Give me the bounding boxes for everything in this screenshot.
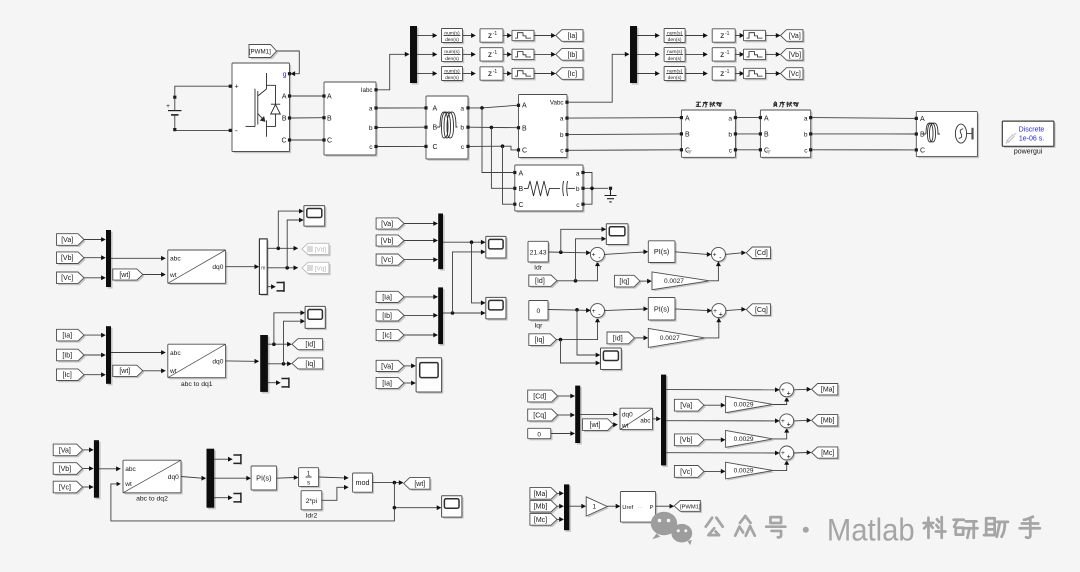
svg-text:den(s): den(s) <box>668 56 682 62</box>
wire <box>548 251 586 254</box>
unit delay z-1 (I row 3) <box>482 69 505 82</box>
svg-text:g: g <box>283 72 287 79</box>
svg-text:dq0: dq0 <box>622 412 633 419</box>
wire <box>84 334 102 336</box>
svg-text:a: a <box>576 170 580 177</box>
wire <box>443 241 482 243</box>
svg-text:[Ia]: [Ia] <box>382 294 392 301</box>
goto tag [Ia] <box>558 31 585 43</box>
gain 0.0029 <box>727 398 774 415</box>
wire <box>214 458 228 460</box>
wire <box>503 53 508 55</box>
svg-text:Matlab: Matlab <box>827 512 915 548</box>
wire <box>503 35 508 37</box>
wire <box>111 257 162 259</box>
goto tag [Cq] <box>748 306 772 318</box>
wire <box>463 35 472 37</box>
rate transition (I row 3) <box>514 70 536 80</box>
svg-text:den(s): den(s) <box>668 37 682 43</box>
wire <box>561 229 602 252</box>
wire <box>735 73 740 75</box>
svg-text:A: A <box>685 115 690 122</box>
from tag [Iq] (row2) <box>531 336 559 348</box>
wire <box>685 73 703 75</box>
wire <box>267 267 294 269</box>
wire <box>558 414 571 416</box>
svg-text:z: z <box>488 49 492 59</box>
sum ++ (mod) <box>781 384 795 398</box>
wire <box>534 53 552 55</box>
wire <box>557 266 598 281</box>
svg-text:PI(s): PI(s) <box>654 247 669 256</box>
svg-text:+: + <box>166 103 170 110</box>
mux (dq0 to abc) <box>577 387 582 444</box>
mod block <box>354 475 374 494</box>
wire <box>710 266 719 281</box>
svg-text:z: z <box>720 49 724 59</box>
svg-text:a: a <box>728 115 732 122</box>
svg-text:0.0029: 0.0029 <box>734 436 754 443</box>
svg-text:b: b <box>728 132 732 139</box>
wire <box>604 252 644 254</box>
terminator (dq0 #1) <box>277 282 285 292</box>
svg-text:Idr2: Idr2 <box>306 512 318 519</box>
svg-text:B: B <box>764 132 769 139</box>
svg-text:-1: -1 <box>493 69 498 75</box>
wire <box>291 139 323 141</box>
svg-text:b: b <box>460 125 464 132</box>
wire <box>84 239 102 241</box>
svg-text:[Mc]: [Mc] <box>821 450 834 457</box>
from tag [Va] (pll) <box>55 446 84 458</box>
wire Vabc to demux <box>569 54 626 102</box>
svg-text:wt: wt <box>621 423 629 430</box>
svg-text:[Iq]: [Iq] <box>305 361 315 368</box>
svg-text:[Iq]: [Iq] <box>535 337 545 344</box>
svg-text:+: + <box>787 420 791 429</box>
wire feedback wt <box>111 484 395 521</box>
svg-text:C: C <box>920 148 925 155</box>
svg-text:[Mb]: [Mb] <box>821 418 835 425</box>
goto tag [Ma] <box>813 385 839 396</box>
from tag [wt] (dq1) <box>115 367 145 378</box>
three-phase I measurement block <box>326 84 378 157</box>
svg-text:abc to dq2: abc to dq2 <box>136 496 168 503</box>
svg-text:1: 1 <box>592 504 596 511</box>
svg-text:C: C <box>519 202 524 209</box>
from tag [Mb] <box>532 502 559 514</box>
wire phase b <box>470 126 518 129</box>
svg-text:Iabc: Iabc <box>361 87 373 94</box>
svg-text:21.43: 21.43 <box>530 249 547 256</box>
terminator (dq1) <box>281 378 289 388</box>
wire <box>84 374 102 376</box>
svg-text:powergui: powergui <box>1014 149 1043 156</box>
svg-text:b: b <box>369 125 373 132</box>
wire <box>557 505 560 507</box>
wire <box>378 107 425 109</box>
svg-text:[Id]: [Id] <box>535 278 545 285</box>
wire <box>569 117 680 120</box>
svg-text:z: z <box>720 30 724 40</box>
svg-text:a: a <box>460 105 464 112</box>
svg-text:+: + <box>592 308 596 315</box>
svg-text:[Cq]: [Cq] <box>755 307 768 314</box>
wire <box>274 313 301 344</box>
from tag [Vb] (pll) <box>55 464 84 476</box>
DC voltage source V1 <box>173 96 176 99</box>
wire <box>656 505 670 507</box>
svg-text:[wt]: [wt] <box>414 481 425 488</box>
svg-text:dq0: dq0 <box>212 359 223 366</box>
svg-text:den(s): den(s) <box>445 75 459 81</box>
svg-text:den(s): den(s) <box>668 75 682 81</box>
gain 1 (PWM) <box>588 499 609 518</box>
svg-text:[Ma]: [Ma] <box>821 387 835 394</box>
gain 0.0029 <box>727 432 774 449</box>
mux V (scopes) <box>440 215 445 271</box>
svg-text:[Vc]: [Vc] <box>61 275 73 282</box>
svg-text:0.0027: 0.0027 <box>664 278 684 285</box>
wire <box>84 354 102 356</box>
unit delay z-1 (I row 1) <box>482 31 505 44</box>
ground G1 <box>609 187 612 190</box>
mux Vabc (dq0 #1) <box>108 232 113 289</box>
wire <box>561 340 597 363</box>
goto tag [Ib] <box>558 50 585 62</box>
svg-text:z: z <box>488 30 492 40</box>
svg-text:[Mb]: [Mb] <box>534 504 548 511</box>
PWM generator block <box>622 493 657 524</box>
wire <box>394 483 437 508</box>
wire <box>737 149 759 151</box>
sum ++ (mod) <box>781 415 795 429</box>
wire <box>404 334 434 336</box>
svg-text:1e-06 s.: 1e-06 s. <box>1019 135 1044 142</box>
wire <box>226 266 255 268</box>
terminator (pll 0) <box>233 493 241 503</box>
three-phase series RL branch <box>428 98 470 161</box>
subsystem 正序扰动 (positive-sequence disturbance) <box>683 112 737 159</box>
from tag [Vb] <box>378 237 406 248</box>
svg-text:[Iq]: [Iq] <box>619 279 629 286</box>
wire <box>812 133 915 135</box>
from tag [Iq] (row1) <box>616 277 642 289</box>
from tag [Va] (scope mux V) <box>378 220 406 231</box>
svg-text:[wt]: [wt] <box>590 422 601 429</box>
svg-text:dq0: dq0 <box>212 264 223 271</box>
sum +- (row1 out) <box>713 249 727 263</box>
svg-text:A: A <box>920 116 925 123</box>
svg-text:[Cd]: [Cd] <box>533 393 546 400</box>
scope Vabc <box>488 238 508 260</box>
from tag [Ia] (dq1) <box>58 331 85 343</box>
wire <box>551 433 571 435</box>
svg-text:+: + <box>781 418 785 425</box>
scope Iabc <box>488 299 508 321</box>
wire <box>175 86 230 95</box>
svg-text:0.0029: 0.0029 <box>734 402 754 409</box>
wire <box>503 73 508 75</box>
svg-text:Uref: Uref <box>622 505 633 511</box>
svg-text:[Ic]: [Ic] <box>63 372 72 379</box>
svg-text:[Ib]: [Ib] <box>382 313 392 320</box>
wire <box>378 145 425 147</box>
wire <box>378 126 425 128</box>
wire <box>417 35 433 37</box>
rate transition (I row 1) <box>514 32 536 42</box>
svg-text:[PWM1]: [PWM1] <box>249 48 271 55</box>
scope Va-Ia <box>418 360 444 394</box>
from tag [Vc] <box>58 274 85 286</box>
svg-text:b: b <box>576 186 580 193</box>
wire <box>704 439 721 441</box>
transfer fcn num/den (I row 3) <box>443 68 464 82</box>
wire <box>725 253 741 255</box>
wire <box>534 35 552 37</box>
goto tag [Vd] (commented) <box>304 245 331 256</box>
svg-text:Idr: Idr <box>534 264 543 271</box>
transfer fcn num/den (I row 1) <box>443 30 464 44</box>
svg-text:+: + <box>787 452 791 461</box>
three-phase series RLC load <box>517 167 585 213</box>
svg-text:[Va]: [Va] <box>381 363 393 370</box>
constant Iqr = 0 <box>531 302 550 322</box>
wire <box>766 35 777 37</box>
wire <box>766 53 777 55</box>
mux Vabc (pll) <box>96 442 101 500</box>
transfer fcn num/den (V row 2) <box>666 49 687 63</box>
wire <box>766 73 777 75</box>
rate transition (V row 1) <box>745 32 767 42</box>
rate transition (V row 2) <box>745 51 767 61</box>
svg-text:B: B <box>327 115 332 122</box>
mux Iabc (dq1) <box>108 328 113 386</box>
svg-text:[Va]: [Va] <box>61 237 73 244</box>
mux (PWM) <box>566 486 571 532</box>
scope (wt) <box>443 498 463 519</box>
scope (Id ctrl) <box>608 226 630 247</box>
wire <box>794 419 808 422</box>
wire <box>277 477 295 480</box>
wire <box>557 518 560 520</box>
rate transition (V row 3) <box>745 70 767 80</box>
svg-text:[Va]: [Va] <box>59 447 71 454</box>
wire <box>99 468 117 470</box>
svg-text:[Vc]: [Vc] <box>381 257 393 264</box>
wire <box>685 35 703 37</box>
abc to dq0 block #3 <box>125 462 183 495</box>
svg-text:C: C <box>522 148 527 155</box>
svg-text:[Vq]: [Vq] <box>315 265 327 272</box>
PI controller PI(s) (pll) <box>253 468 278 492</box>
svg-text:-1: -1 <box>493 50 498 56</box>
svg-text:b: b <box>560 132 564 139</box>
wire <box>666 420 775 422</box>
wire Iabc to demux <box>378 54 406 90</box>
demux (dq1) <box>262 337 270 394</box>
svg-text:A: A <box>764 115 769 122</box>
svg-text:[Vb]: [Vb] <box>680 437 693 444</box>
svg-text:···: ··· <box>638 505 643 511</box>
wire <box>372 482 399 484</box>
from tag [Id] (row1) <box>531 277 559 288</box>
svg-text:a: a <box>804 115 808 122</box>
from tag [Vc] (mod row) <box>676 467 706 479</box>
svg-text:+: + <box>787 389 791 398</box>
wire <box>287 220 299 268</box>
svg-text:a: a <box>560 116 564 123</box>
wire phase a <box>470 105 518 108</box>
wire <box>773 464 787 470</box>
wire <box>143 370 162 372</box>
wire <box>637 35 656 37</box>
from tag [Vb] (mod row) <box>676 436 706 448</box>
svg-text:[Cd]: [Cd] <box>755 250 768 257</box>
scope (Iq ctrl) <box>602 350 623 372</box>
svg-text:[Vc]: [Vc] <box>680 469 692 476</box>
svg-text:+: + <box>719 309 723 318</box>
svg-text:[Ib]: [Ib] <box>62 352 72 359</box>
svg-text:+: + <box>592 252 596 259</box>
svg-text:+: + <box>781 450 785 457</box>
wire <box>226 360 255 362</box>
sum +- (row2 error) <box>592 305 606 319</box>
demux bus Vabc <box>632 28 639 85</box>
from tag [Ma] <box>532 489 559 501</box>
wire <box>404 259 434 261</box>
svg-text:z: z <box>720 68 724 78</box>
svg-text:den(s): den(s) <box>445 37 459 43</box>
wire load a-b-c short <box>585 173 593 205</box>
wire <box>277 51 300 74</box>
wire <box>291 117 323 119</box>
bus selector (dq0 #1) <box>261 240 269 296</box>
svg-text:[wt]: [wt] <box>119 272 130 279</box>
svg-text:a: a <box>369 106 373 113</box>
wire <box>675 309 708 311</box>
svg-text:wt: wt <box>169 368 177 375</box>
unit delay z-1 (V row 2) <box>714 49 737 62</box>
subsystem 负序扰动 (negative-sequence disturbance) <box>762 112 812 159</box>
wire <box>404 296 434 298</box>
wire drop a to load <box>482 108 513 173</box>
svg-text:wt: wt <box>169 272 177 279</box>
from tag [Ib] <box>58 351 85 363</box>
svg-text:[Id]: [Id] <box>613 335 623 342</box>
wire <box>268 382 277 384</box>
goto tag [Id] <box>294 340 325 351</box>
wire <box>417 73 433 75</box>
svg-text:[Vc]: [Vc] <box>789 71 801 78</box>
goto tag [Mb] <box>813 416 839 427</box>
wire <box>557 492 560 494</box>
svg-text:Vabc: Vabc <box>550 100 564 107</box>
wire <box>675 252 707 255</box>
wire <box>640 280 648 282</box>
wire <box>404 365 411 367</box>
wire <box>556 322 597 340</box>
wire <box>453 252 482 313</box>
wire <box>737 117 759 119</box>
svg-text:mod: mod <box>356 478 370 487</box>
from tag [Va] (scope VI) <box>378 362 406 373</box>
wire <box>773 401 787 405</box>
svg-text:[Vd]: [Vd] <box>315 246 327 253</box>
svg-text:[PWM1]: [PWM1] <box>680 504 701 510</box>
svg-text:B: B <box>920 132 925 139</box>
svg-text:[Vb]: [Vb] <box>61 255 74 262</box>
svg-text:dq0: dq0 <box>168 474 179 481</box>
svg-text:den(s): den(s) <box>445 56 459 62</box>
wire <box>278 211 299 248</box>
svg-text:0.0027: 0.0027 <box>660 335 680 342</box>
wire <box>84 277 102 279</box>
wire <box>653 418 657 420</box>
mux I (scopes) <box>440 289 445 346</box>
wire <box>705 322 719 338</box>
svg-text:[wt]: [wt] <box>119 368 130 375</box>
wire <box>284 321 301 364</box>
PI controller PI(s) (row2) <box>650 299 677 322</box>
wire <box>83 468 90 470</box>
IGBT bridge converter U1 <box>234 65 292 154</box>
svg-text:abc: abc <box>125 466 136 473</box>
wire <box>404 240 434 242</box>
svg-text:C: C <box>281 138 286 145</box>
transfer fcn num/den (I row 2) <box>443 49 464 63</box>
wire <box>607 505 616 507</box>
goto tag [Vb] <box>782 50 805 62</box>
svg-text:[Vc]: [Vc] <box>59 484 71 491</box>
constant Idr = 21.43 <box>530 243 550 264</box>
svg-text:abc to dq1: abc to dq1 <box>181 381 213 388</box>
wire <box>534 73 552 75</box>
unit delay z-1 (V row 1) <box>714 31 737 44</box>
wire <box>735 35 740 37</box>
wire <box>111 352 162 354</box>
wire <box>569 133 680 136</box>
wire <box>569 505 582 507</box>
wire <box>404 314 434 316</box>
svg-text:abc: abc <box>170 350 181 357</box>
wire <box>463 53 472 55</box>
from tag [Id] (row2) <box>609 334 637 346</box>
constant 0 (mod) <box>529 430 552 440</box>
unit delay z-1 (I row 2) <box>482 49 505 62</box>
from tag [Vc] (pll) <box>55 483 84 495</box>
gain 0.0027 (row1) <box>654 274 712 292</box>
sum ++ (mod) <box>781 448 795 462</box>
wire <box>463 73 472 75</box>
wire <box>635 337 645 339</box>
svg-text:C: C <box>433 144 438 151</box>
goto tag [Vc] <box>782 69 805 81</box>
svg-text:[Ic]: [Ic] <box>568 71 577 78</box>
wire <box>580 413 614 415</box>
wire <box>84 257 102 259</box>
svg-text:1: 1 <box>307 471 311 478</box>
goto tag [PWM1] <box>676 502 702 513</box>
from tag [Ia] (scope mux I) <box>378 293 406 304</box>
svg-text:B: B <box>433 125 438 132</box>
svg-text:B: B <box>685 132 690 139</box>
wire <box>576 239 603 281</box>
three-phase V measurement block <box>520 96 569 159</box>
rate transition (I row 2) <box>514 51 536 61</box>
svg-text:C: C <box>327 138 332 145</box>
abc to dq0 block #2 <box>170 346 228 380</box>
